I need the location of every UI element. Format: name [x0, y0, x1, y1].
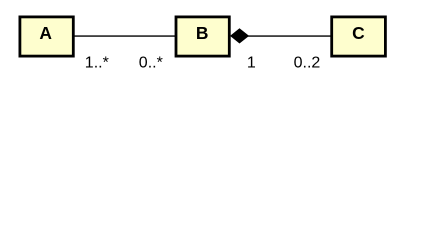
svg-text:B: B [196, 23, 209, 43]
svg-text:C: C [352, 23, 365, 43]
svg-text:1..*: 1..* [85, 54, 109, 71]
svg-text:0..2: 0..2 [294, 54, 321, 71]
class B box [176, 17, 229, 56]
svg-text:1: 1 [247, 54, 256, 71]
class A box [20, 17, 73, 56]
svg-text:0..*: 0..* [139, 54, 163, 71]
wire diamond-C association [248, 35, 332, 37]
composition diamond at B [231, 29, 249, 43]
wire A-B association [74, 35, 176, 37]
class C box [332, 17, 386, 56]
svg-text:A: A [39, 23, 52, 43]
